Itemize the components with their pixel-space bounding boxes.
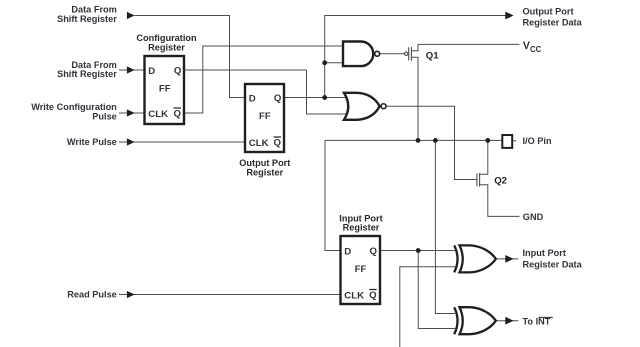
svg-text:Register: Register (246, 167, 283, 177)
wire: Q branch to XOR2 input B (418, 251, 455, 329)
svg-text:Q: Q (174, 109, 182, 120)
svg-text:Register: Register (148, 42, 185, 52)
transistor Q1 PMOS (405, 47, 412, 61)
svg-text:Write Pulse: Write Pulse (67, 137, 117, 147)
wire: bottom net to XOR1 input B (400, 267, 455, 347)
svg-text:Q: Q (274, 138, 282, 149)
node: junction dot Q2 drain on I/O line (485, 138, 490, 143)
overline: Configuration Register Qbar (174, 107, 181, 109)
arrowhead: To INT (505, 317, 513, 325)
wire: top Data From Shift Register to Output Port Register D (135, 16, 246, 98)
pins: Configuration Register (148, 66, 182, 120)
overline: INT (539, 316, 553, 318)
gate: XOR1 U4 body (460, 245, 496, 272)
svg-text:CLK: CLK (148, 109, 168, 120)
gate: NOR U3 body (344, 93, 380, 120)
gate: XOR2 U5 body (460, 307, 496, 334)
transistor Q2 NMOS (477, 173, 480, 187)
wire: I/O pin stub to label (512, 140, 516, 142)
node: junction dot Q1 source on I/O line (416, 138, 421, 143)
wire: Output Port Register Q to NOR input A (284, 97, 348, 99)
svg-text:Pulse: Pulse (92, 111, 117, 121)
svg-text:Q: Q (369, 290, 377, 301)
wire: I/O net branch to XOR2 input A (435, 140, 455, 313)
wire: Configuration Register Qbar to NAND input A (184, 46, 343, 113)
arrowhead: Data From Shift Register (top) (127, 12, 135, 19)
wire: XOR2 output to To INT (496, 320, 519, 322)
svg-text:FF: FF (259, 111, 271, 122)
svg-text:Q: Q (174, 66, 182, 77)
svg-text:Shift Register: Shift Register (57, 14, 117, 24)
wire: Read Pulse to Input Port Register CLK (119, 294, 341, 296)
gate: XOR1 U4 input curve (454, 245, 457, 272)
arrowhead: Write Configuration Pulse (127, 109, 135, 116)
pins: Output Port Register (249, 93, 282, 149)
svg-text:FF: FF (159, 83, 171, 94)
svg-text:To INT: To INT (523, 317, 551, 327)
arrowhead: Input Port Register Data (505, 255, 513, 263)
flip-flop: Output Port Register box (245, 84, 284, 152)
overline: Input Port Register Qbar (369, 289, 376, 291)
wire: Q1 drain to VCC (412, 44, 520, 50)
node: junction dot Q net at NOR input A (322, 95, 327, 100)
wire: Write Pulse to Output Port Register CLK (119, 141, 245, 143)
gate: XOR2 U5 input curve (454, 307, 457, 334)
node: junction dot XOR2 branch on I/O line (433, 138, 438, 143)
wire: Q net vertical riser to Output Port Register Data (325, 16, 507, 98)
svg-text:Input Port: Input Port (523, 248, 566, 258)
svg-text:Read Pulse: Read Pulse (67, 290, 117, 300)
wire: XOR1 output to Input Port Register Data (496, 258, 519, 260)
svg-text:Register Data: Register Data (523, 18, 583, 28)
arrowhead: Data From Shift Register (second) (127, 66, 135, 73)
wire: Configuration Register Q to NOR input B (184, 70, 348, 114)
wire: I/O net branch to Q2 drain (480, 140, 488, 174)
flip-flop: Configuration Register box (145, 56, 185, 124)
overline: Output Port Register Qbar (274, 136, 281, 138)
wire: I/O pin horizontal net (325, 139, 502, 141)
svg-text:Q: Q (370, 246, 378, 257)
wire: NOR output to Q2 gate (386, 106, 476, 179)
svg-text:D: D (249, 93, 256, 104)
wire: Q net branch to NAND input B (325, 62, 343, 64)
wire: Write Configuration Pulse to Configuration Register CLK (119, 112, 145, 114)
gate: NAND U2 output bubble (375, 51, 380, 56)
svg-text:CLK: CLK (344, 291, 364, 302)
svg-text:CLK: CLK (249, 138, 269, 149)
svg-text:Shift Register: Shift Register (57, 69, 117, 79)
flip-flop: Input Port Register box (341, 236, 381, 304)
svg-text:Q: Q (274, 93, 282, 104)
svg-text:Output Port: Output Port (523, 6, 574, 16)
wire: Input Port Register Q to XOR1 input A (380, 250, 455, 252)
wire: NAND output to Q1 gate (380, 53, 404, 55)
wire: Q2 source to GND (480, 185, 520, 217)
svg-text:D: D (148, 66, 155, 77)
gate: NAND U2 body (343, 42, 373, 67)
pins: Input Port Register (344, 246, 377, 301)
wire: I/O net down to Input Port Register D (325, 140, 341, 250)
svg-text:FF: FF (355, 264, 367, 275)
svg-text:Q1: Q1 (426, 51, 439, 62)
svg-text:Register: Register (343, 223, 380, 233)
node: junction dot NAND input B (322, 60, 327, 65)
svg-text:Q2: Q2 (494, 176, 507, 187)
svg-text:Register Data: Register Data (523, 260, 583, 270)
component: I/O pin pad (502, 135, 512, 148)
arrowhead: Read Pulse (127, 291, 135, 298)
node: junction dot Input FF Q branch (416, 248, 421, 253)
wire: Data From Shift Register to Configuration Register D (119, 69, 145, 71)
wire: Q1 source to I/O line (412, 57, 418, 140)
arrowhead: Output Port Register Data (505, 12, 513, 20)
svg-text:GND: GND (523, 212, 544, 222)
svg-text:I/O Pin: I/O Pin (523, 136, 552, 146)
arrowhead: Write Pulse (127, 138, 135, 145)
svg-text:D: D (344, 246, 351, 257)
gate: NOR U3 output bubble (381, 104, 386, 109)
